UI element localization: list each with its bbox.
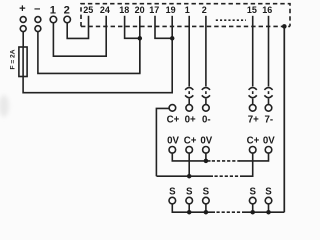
terminal 0V circle row2 left [169,147,176,154]
terminal 0V circle row2 mid [203,147,210,154]
svg-text:+: + [19,3,26,15]
svg-text:17: 17 [149,5,159,15]
svg-text:20: 20 [135,5,145,15]
0V bus left [172,153,210,161]
0V bus dashes [212,160,240,162]
terminal S circle 4 [249,197,256,204]
C+ net right [241,153,253,176]
svg-text:7-: 7- [264,114,273,125]
junction dot connector shield [282,24,287,29]
pin 16 wire down [268,16,270,87]
pin 15 wire down [252,16,254,87]
svg-text:25: 25 [83,5,93,15]
terminal - circles [35,17,41,23]
svg-text:S: S [169,186,176,197]
terminal S circle 2 [186,197,193,204]
svg-text:S: S [265,186,272,197]
S stem 4 [252,204,254,212]
wire - to pin20 junction [38,32,140,74]
S stem 2 [188,204,190,212]
svg-text:15: 15 [247,5,257,15]
junction dot pins 17/19 [170,36,175,41]
svg-text:C+: C+ [184,136,197,147]
terminal 0V circle row2 far right [265,147,272,154]
svg-text:S: S [186,186,193,197]
plug symbol 0- [202,88,210,105]
svg-text:0V: 0V [167,136,179,147]
omitted pins dashes [216,19,246,21]
scan smudge artifact [0,95,9,117]
S bus right [244,211,285,213]
terminal 0- circle [203,105,210,112]
plug symbol 0+ [185,88,193,105]
wire shield to S bus [283,26,285,212]
fuse wire through [22,47,24,77]
C+ net dashes [215,175,241,177]
S bus dashes [217,211,244,213]
svg-text:F = 2A: F = 2A [10,49,17,69]
wire fuse to pin19 junction [23,38,172,92]
svg-text:0-: 0- [202,114,211,125]
svg-text:16: 16 [262,5,272,15]
0V bus right [240,153,269,161]
wire terminal2 to pin25 [67,16,88,39]
junction dot S 3 [204,210,209,215]
wire C+ feed [156,108,169,176]
junction dot S 4 [250,210,255,215]
svg-text:24: 24 [100,5,110,15]
terminal S circle 1 [169,197,176,204]
svg-text:1: 1 [50,5,56,17]
pin 18 wire to junction [125,16,140,39]
svg-text:19: 19 [166,5,176,15]
terminal + circles [20,17,26,23]
junction dot pins 18/20 [138,36,143,41]
pin 17 wire to junction [155,16,172,39]
terminal 7- circle [265,105,272,112]
pin 20 wire down [139,16,141,74]
wire terminal1 to pin24 [53,16,106,56]
junction dot S 2 [187,210,192,215]
terminal S circle 5 [265,197,272,204]
terminal C+ circle row2 [186,147,193,154]
svg-text:18: 18 [119,5,129,15]
terminal 0+ circle [186,105,193,112]
junction dot S 5 [266,210,271,215]
svg-text:–: – [34,3,40,15]
wire + to fuse [22,32,24,47]
plug symbol 7- [264,88,272,105]
svg-text:2: 2 [64,5,70,17]
S bus left [172,204,215,212]
junction dot 0V bus [204,159,209,164]
terminal 1 circle [50,16,57,23]
S stem 3 [205,204,207,212]
terminal C+ circle row2 right [249,147,256,154]
terminal C+ circle [169,105,176,112]
S stem 5 [268,204,270,212]
terminal 2 circle [64,16,71,23]
pin 19 wire down [171,16,173,39]
svg-text:0+: 0+ [185,114,196,125]
svg-text:C+: C+ [247,136,260,147]
fuse F=2A body [19,47,27,77]
C+ net stem row2 [188,153,190,176]
svg-text:0V: 0V [263,136,275,147]
terminal S circle 3 [203,197,210,204]
svg-text:2: 2 [202,5,207,15]
C+ net left [157,175,214,177]
svg-text:1: 1 [185,5,190,15]
pin 1 wire down [188,16,190,87]
svg-text:C+: C+ [167,114,180,125]
pin 2 wire down [205,16,207,87]
svg-text:S: S [249,186,256,197]
connector dashed box [81,4,290,27]
plug symbol 7+ [249,88,257,105]
0V bus stem mid [205,153,207,161]
terminal 7+ circle [249,105,256,112]
svg-text:0V: 0V [200,136,212,147]
junction dot C+ net [187,174,192,179]
svg-text:S: S [203,186,210,197]
svg-text:7+: 7+ [248,114,259,125]
